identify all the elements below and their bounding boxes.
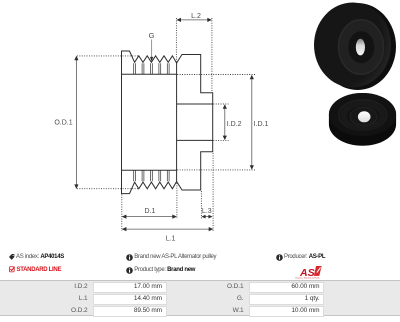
spec table — [0, 280, 400, 316]
info row B: product type — [126, 267, 133, 274]
pulley outline — [122, 51, 213, 194]
svg-text:L.3: L.3 — [202, 208, 212, 215]
svg-text:I.D.2: I.D.2 — [227, 121, 242, 128]
groove slots top — [134, 63, 169, 74]
dimension O.D.1 — [74, 56, 78, 189]
I.D.2 extensions — [213, 103, 228, 105]
info row A: description — [126, 254, 133, 261]
info row A: AS index — [9, 254, 15, 260]
svg-text:G: G — [149, 31, 155, 40]
info row B: AS-PL logo — [295, 264, 325, 280]
svg-text:O.D.1: O.D.1 — [54, 120, 72, 127]
groove slots bottom — [134, 170, 169, 181]
I.D.1 extensions — [177, 74, 255, 76]
O.D.1 extensions — [77, 55, 138, 57]
dotted extension lines — [77, 18, 256, 231]
root line top — [122, 73, 177, 75]
bore line bottom — [177, 139, 213, 141]
info row A: producer — [276, 254, 283, 261]
photo: pulley front view — [314, 3, 396, 91]
dimension I.D.2 — [223, 104, 227, 140]
tag icon — [9, 254, 14, 260]
svg-text:I.D.1: I.D.1 — [254, 121, 269, 128]
svg-text:L.1: L.1 — [166, 236, 176, 243]
bottom extensions — [121, 195, 123, 232]
info icon — [126, 254, 133, 261]
svg-text:L.2: L.2 — [191, 13, 201, 20]
svg-text:Alternators, Starters & Parts: Alternators, Starters & Parts — [295, 276, 320, 279]
bore line top — [177, 103, 213, 105]
info icon — [276, 254, 283, 261]
photo: pulley top view — [329, 93, 396, 146]
info row B: standard line — [9, 266, 15, 273]
info icon — [126, 267, 133, 274]
body right edge — [176, 63, 178, 182]
svg-text:D.1: D.1 — [145, 208, 156, 215]
red checkbox icon — [9, 267, 14, 272]
L.2 extensions — [175, 18, 177, 62]
root line bottom — [122, 169, 177, 171]
dimension L.1 — [122, 227, 214, 231]
dimension I.D.1 — [250, 75, 254, 170]
